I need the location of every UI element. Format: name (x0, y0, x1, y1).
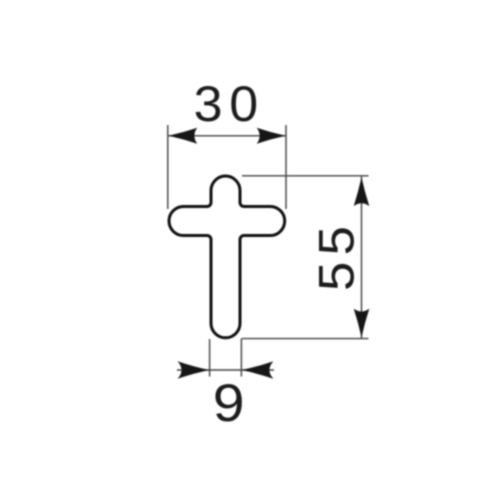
svg-text:30: 30 (194, 76, 265, 132)
svg-text:55: 55 (308, 220, 364, 291)
svg-text:9: 9 (213, 373, 245, 433)
